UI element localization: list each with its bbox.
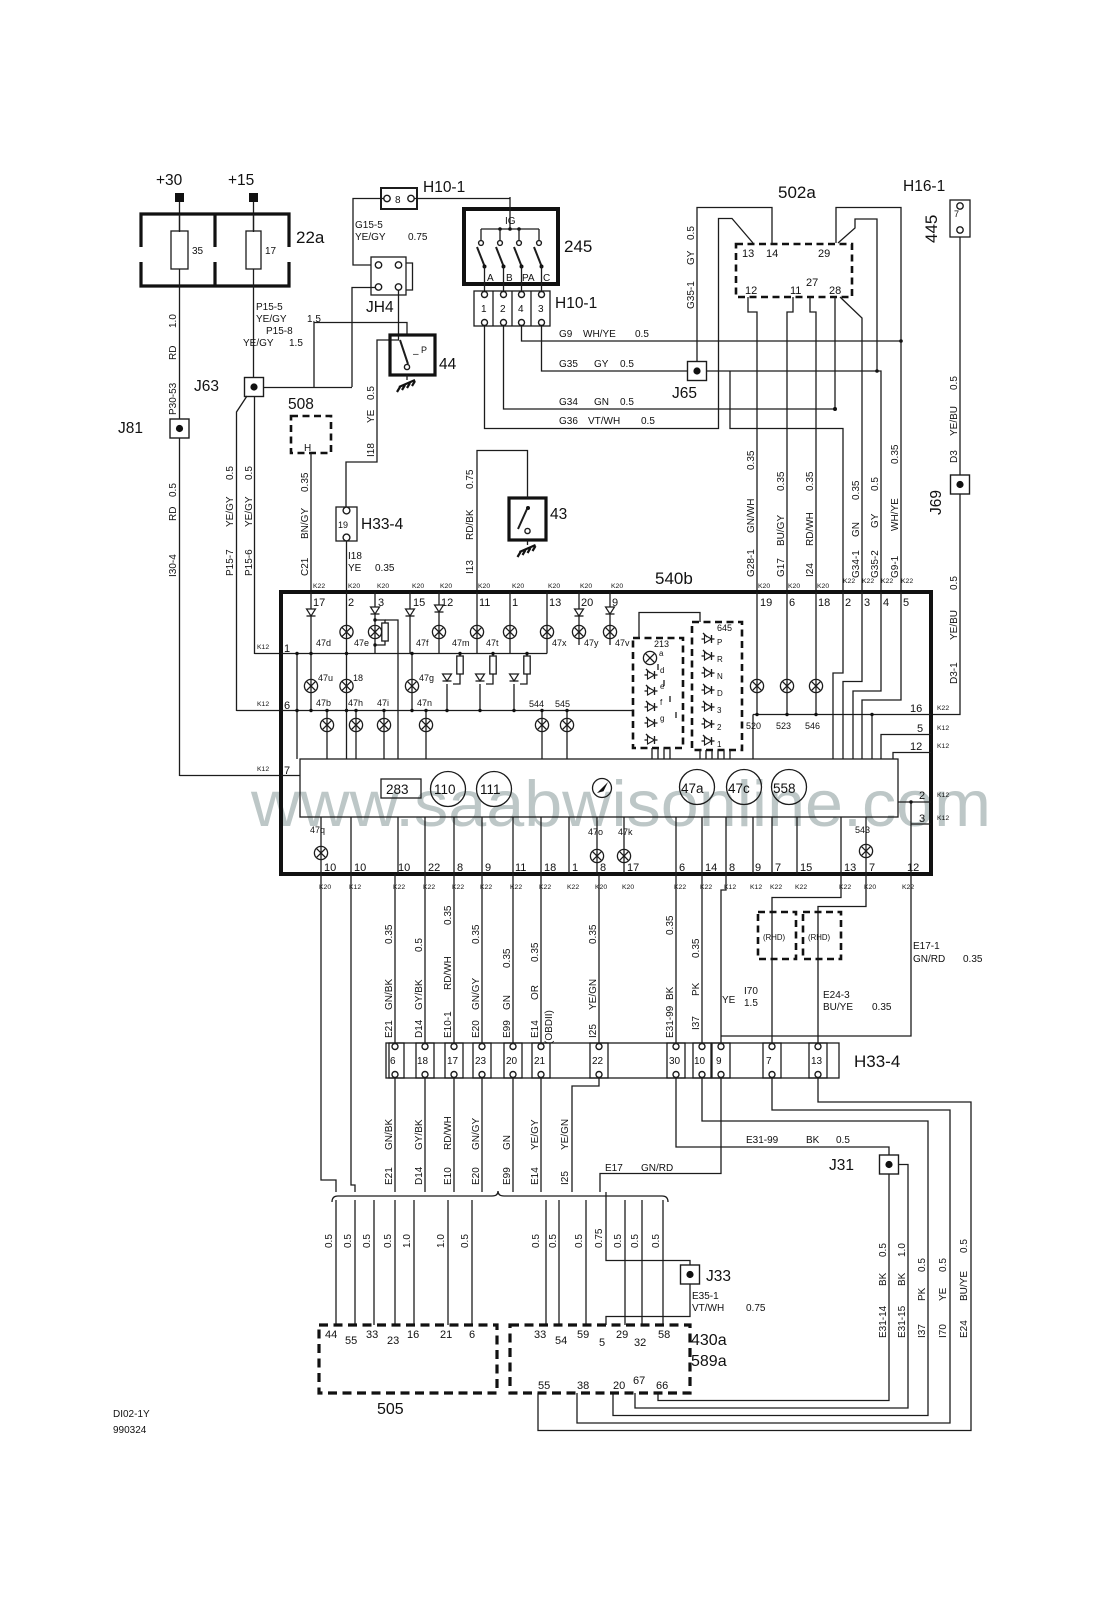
svg-text:YE/GY: YE/GY [530,1119,541,1150]
ground under 43 [518,540,536,557]
bottom pin numbers [324,862,919,874]
connector strip H33-4 [386,1043,839,1078]
svg-text:WH/YE: WH/YE [583,329,616,340]
svg-text:GN: GN [851,522,862,537]
svg-text:GN/WH: GN/WH [746,499,757,533]
svg-text:47o: 47o [588,827,603,837]
svg-text:8: 8 [395,195,401,206]
wire pin19 lamp 520 [756,592,758,715]
wire pin20 diode lamp 47y [578,592,580,645]
svg-text:445: 445 [922,215,941,243]
svg-text:505: 505 [377,1401,404,1418]
diode+resistor pair 2 [492,654,494,657]
staircase wire pin3 [843,592,862,759]
svg-text:13: 13 [844,862,856,874]
wire E31-99 BK 0.5 from H33-4 pin30 to J31 [676,1078,889,1155]
svg-text:P: P [717,638,722,647]
wire D3-1 YE/BU 0.5 from J69 down to 540b pin16 [931,494,960,715]
svg-text:645: 645 [717,623,732,633]
wire JH4 lower-left pin to J63 line [352,288,375,388]
svg-text:–: – [413,349,419,360]
svg-text:0.5: 0.5 [917,1258,928,1272]
svg-text:PK: PK [691,982,702,996]
svg-text:0.5: 0.5 [949,376,960,390]
svg-text:55: 55 [345,1335,357,1347]
svg-text:YE/GY: YE/GY [225,496,236,527]
wire pin6 lamp 523 [786,592,788,715]
svg-text:H33-4: H33-4 [854,1052,900,1071]
svg-text:10: 10 [324,862,336,874]
svg-text:RD/BK: RD/BK [465,509,476,540]
svg-text:1: 1 [572,862,578,874]
svg-text:3: 3 [717,706,722,715]
svg-text:J81: J81 [118,420,143,437]
wire 502a pin27 I24 RD/WH 0.35 to 540b pin18 [810,297,816,592]
svg-text:19: 19 [338,520,348,530]
svg-text:K12: K12 [937,743,949,750]
gauge 47c [727,770,762,805]
svg-text:G9-1: G9-1 [890,555,901,578]
svg-text:WH/YE: WH/YE [890,498,901,531]
svg-text:22a: 22a [296,228,325,247]
svg-text:7: 7 [954,209,959,219]
svg-text:G34-1: G34-1 [851,550,862,578]
svg-text:K12: K12 [937,792,949,799]
svg-text:12: 12 [907,862,919,874]
wire H10-1/8 right to ignition IG [414,198,510,200]
svg-text:C: C [543,273,550,284]
svg-text:0.35: 0.35 [746,450,757,470]
svg-text:YE: YE [722,995,736,1006]
svg-text:K22: K22 [770,884,782,891]
svg-text:(RHD): (RHD) [808,933,830,942]
wire JH4 lower-right pin YE 0.5 to H33-4 pin19 [346,290,399,507]
svg-text:E14: E14 [530,1167,541,1185]
top K labels [313,578,913,590]
svg-text:7: 7 [775,862,781,874]
lamps 544 545 [541,711,543,760]
svg-text:A: A [487,273,494,284]
svg-text:0.35: 0.35 [502,948,513,968]
right pin12 K12 wire [893,753,931,760]
RHD wire left: 13 K22 to H33-4 pin7 [772,874,841,1043]
svg-text:0.5: 0.5 [870,477,881,491]
svg-text:GN: GN [502,995,513,1010]
svg-text:0.75: 0.75 [594,1228,605,1248]
wire branch up to switch 44 [314,323,407,388]
svg-text:GN: GN [502,1135,513,1150]
svg-text:0.75: 0.75 [408,232,428,243]
wire G35 GY 0.5 from pin3 through J65 to 540b pin4 [542,326,882,592]
svg-text:0.5: 0.5 [531,1234,542,1248]
svg-text:47m: 47m [452,638,470,648]
svg-text:17: 17 [313,597,325,609]
svg-text:589a: 589a [691,1353,727,1370]
wire G15-5 YE/GY 0.75 from H10-1/8 to JH4 [353,199,384,266]
svg-text:4: 4 [518,304,524,315]
svg-text:283: 283 [386,782,409,797]
svg-text:55: 55 [538,1380,550,1392]
svg-text:BU/GY: BU/GY [776,515,787,546]
svg-text:12: 12 [910,741,922,753]
lever C [534,247,542,266]
svg-text:5: 5 [599,1337,605,1349]
svg-text:19: 19 [760,597,772,609]
svg-text:I24: I24 [805,563,816,577]
svg-text:6: 6 [390,1056,396,1067]
svg-text:GN: GN [594,397,609,408]
svg-text:0.35: 0.35 [851,480,862,500]
svg-text:29: 29 [818,248,830,260]
svg-text:13: 13 [549,597,561,609]
svg-text:K12: K12 [750,884,762,891]
svg-text:BN/GY: BN/GY [300,508,311,539]
wire 502a pin29 to G9 line [836,208,901,342]
svg-text:1: 1 [717,740,722,749]
svg-text:0.35: 0.35 [691,938,702,958]
fusebox 22a [141,214,289,286]
svg-text:47q: 47q [310,825,325,835]
wire P15-5 YE/GY from fuse17 down to J63 [253,286,255,378]
svg-text:0.5: 0.5 [414,938,425,952]
wire pin13 lamp 47x [546,592,548,654]
svg-text:BK: BK [665,986,676,1000]
rail E31-14 BK 0.5 from J31 down [658,1174,889,1401]
svg-text:0.35: 0.35 [588,924,599,944]
rail I37 PK 0.5 from H33-4 pin10 [613,1078,928,1416]
svg-text:BK: BK [806,1135,820,1146]
svg-text:RD/WH: RD/WH [443,1116,454,1150]
svg-text:6: 6 [679,862,685,874]
svg-text:13: 13 [811,1056,823,1067]
svg-text:K20: K20 [377,583,389,590]
svg-text:0.5: 0.5 [324,1234,335,1248]
diode (unlabeled) [645,734,658,744]
svg-text:YE/GY: YE/GY [244,496,255,527]
svg-text:E31-99: E31-99 [746,1135,779,1146]
svg-text:E31-99: E31-99 [665,1005,676,1038]
svg-text:P: P [421,345,427,355]
svg-text:G35-2: G35-2 [870,550,881,578]
svg-text:BU/YE: BU/YE [823,1002,853,1013]
svg-text:213: 213 [654,639,669,649]
pin16 drop to panel [871,715,873,760]
svg-text:YE/BU: YE/BU [949,406,960,436]
wire 502a pin29 slant branch to G35 line [838,219,877,371]
svg-text:H: H [304,443,311,454]
svg-text:47u: 47u [318,673,333,683]
harness brace [332,1191,668,1202]
svg-text:+15: +15 [228,172,254,189]
svg-text:K20: K20 [412,583,424,590]
svg-text:OR: OR [530,985,541,1000]
svg-text:I37: I37 [917,1324,928,1338]
svg-text:RD: RD [168,507,179,521]
svg-text:21: 21 [440,1329,452,1341]
staircase wire pin5 [862,592,901,759]
svg-text:543: 543 [855,825,870,835]
svg-text:110: 110 [434,782,456,797]
svg-text:+30: +30 [156,172,183,189]
svg-text:15: 15 [413,597,425,609]
svg-text:1.0: 1.0 [402,1234,413,1248]
svg-text:K20: K20 [478,583,490,590]
svg-text:0.5: 0.5 [630,1234,641,1248]
svg-text:K22: K22 [843,578,855,585]
svg-text:E20: E20 [471,1020,482,1038]
svg-text:BK: BK [878,1272,889,1286]
svg-text:d: d [660,666,664,675]
svg-text:P15-8: P15-8 [266,326,293,337]
svg-text:YE: YE [366,409,377,423]
staircase wire pin4 [853,592,881,759]
svg-text:16: 16 [910,703,922,715]
svg-text:0.5: 0.5 [651,1234,662,1248]
unit 502a (dashed) [736,244,852,297]
svg-text:GN/GY: GN/GY [471,977,482,1010]
wire E17 GN/RD from H33-4 pin9 to 430a pin5 [600,1078,721,1192]
svg-text:0.5: 0.5 [959,1239,970,1253]
dashed box 645 diode array [692,622,742,750]
svg-text:0.5: 0.5 [225,466,236,480]
svg-text:K22: K22 [881,578,893,585]
svg-text:K12: K12 [257,701,269,708]
row3 lamps 47b 47h 47i 47n [326,711,328,760]
svg-text:0.5: 0.5 [641,416,655,427]
svg-text:430a: 430a [691,1332,727,1349]
svg-text:9: 9 [755,862,761,874]
inner gauge panel rect [300,759,898,817]
svg-text:BK: BK [897,1272,908,1286]
gauge 558 [772,770,807,805]
svg-text:33: 33 [534,1329,546,1341]
row2 lamp 47u [310,654,312,711]
svg-text:G15-5: G15-5 [355,220,383,231]
wire 502a pin28 branch down to G34 line [834,297,836,409]
instrument cluster 540b [281,592,931,874]
svg-text:9: 9 [485,862,491,874]
harness wires down to 505 [336,1200,472,1325]
svg-text:9: 9 [716,1056,722,1067]
svg-text:28: 28 [829,285,841,297]
svg-text:545: 545 [555,699,570,709]
harness wires down to 430a [546,1200,663,1325]
svg-text:YE: YE [938,1287,949,1301]
connector H10-1 pins 1 2 4 3 [474,284,550,326]
svg-text:2: 2 [717,723,722,732]
diode 1 [702,735,715,745]
svg-text:K20: K20 [622,884,634,891]
diode+resistor pair 1 [459,654,461,657]
wire E17-1 GN/RD from pin 12 K22 [721,874,911,1036]
svg-text:0.35: 0.35 [963,954,983,965]
svg-text:54: 54 [555,1335,567,1347]
wire pin12 diode lamp 47m [438,592,440,654]
svg-text:4: 4 [883,597,889,609]
wire E35-1 VT/WH 0.75 from J33 to 430a pin5 [606,1284,690,1325]
branch from pin3 circuit down to bottom pin 10 K22 [385,620,398,759]
diode R [702,650,715,660]
svg-text:5: 5 [903,597,909,609]
svg-text:245: 245 [564,237,592,256]
svg-text:E35-1: E35-1 [692,1291,719,1302]
svg-text:508: 508 [288,396,314,413]
svg-text:47a: 47a [681,781,704,796]
svg-text:K22: K22 [567,884,579,891]
svg-text:0.35: 0.35 [872,1002,892,1013]
svg-text:E17-1: E17-1 [913,941,940,952]
svg-text:I25: I25 [560,1171,571,1185]
node J65 [688,362,707,381]
svg-text:K12: K12 [257,644,269,651]
svg-text:E24: E24 [959,1320,970,1338]
svg-text:1.0: 1.0 [168,314,179,328]
wire D3 YE/BU 0.5 from H16-1 down to J69 [959,237,961,475]
ground under 44 [397,375,415,392]
wire I18 YE 0.35 from pin19 to 540b pin2 [346,541,348,592]
row2 lamp 47g [411,654,413,711]
svg-text:1: 1 [481,304,487,315]
svg-text:J31: J31 [829,1157,854,1174]
junction vertical x297 [296,654,298,760]
svg-text:0.35: 0.35 [805,471,816,491]
svg-text:E21: E21 [384,1167,395,1185]
svg-text:K20: K20 [611,583,623,590]
svg-text:E10-1: E10-1 [443,1011,454,1038]
svg-text:P30-53: P30-53 [168,382,179,415]
svg-text:21: 21 [534,1056,546,1067]
fuse 35 [171,231,188,269]
svg-text:PK: PK [917,1287,928,1301]
svg-text:RD/WH: RD/WH [443,956,454,990]
svg-text:GY/BK: GY/BK [414,979,425,1010]
comb wires below arrays to panel [652,748,670,759]
svg-text:3: 3 [919,813,925,825]
svg-text:0.5: 0.5 [635,329,649,340]
svg-text:67: 67 [633,1375,645,1387]
svg-text:E99: E99 [502,1167,513,1185]
svg-text:47h: 47h [348,698,363,708]
svg-text:0.35: 0.35 [776,471,787,491]
svg-text:111: 111 [480,782,501,797]
svg-text:D: D [717,689,723,698]
svg-text:E31-15: E31-15 [897,1305,908,1338]
svg-text:GN/RD: GN/RD [913,954,945,965]
link wire between array feeds [639,613,700,639]
display 283 [381,779,421,798]
svg-text:47k: 47k [618,827,633,837]
svg-text:8: 8 [457,862,463,874]
svg-text:J33: J33 [706,1268,731,1285]
svg-text:D14: D14 [414,1166,425,1185]
svg-text:0.5: 0.5 [366,386,377,400]
wire C21 BN/GY 0.35 from 508 H to 540b pin17 [310,453,312,592]
svg-text:1: 1 [512,597,518,609]
svg-text:GN/BK: GN/BK [384,979,395,1010]
svg-text:33: 33 [366,1329,378,1341]
svg-text:RD/WH: RD/WH [805,512,816,546]
svg-text:H16-1: H16-1 [903,178,945,195]
svg-text:23: 23 [475,1056,487,1067]
svg-text:G35-1: G35-1 [686,281,697,309]
lamp 47o [590,849,603,862]
svg-text:G17: G17 [776,558,787,577]
wires H33-4 down with labels [395,1078,599,1192]
svg-text:RD: RD [168,346,179,360]
svg-text:43: 43 [550,506,567,523]
svg-text:23: 23 [387,1335,399,1347]
svg-text:K12: K12 [937,815,949,822]
svg-text:11: 11 [515,862,526,874]
svg-text:47y: 47y [584,638,599,648]
svg-text:K22: K22 [510,884,522,891]
diode e [645,685,658,695]
small gauge [593,779,612,798]
svg-text:0.5: 0.5 [168,483,179,497]
svg-text:10: 10 [694,1056,706,1067]
rail E31-15 BK 1.0 from J31 right [635,1165,908,1409]
svg-text:47i: 47i [377,698,389,708]
svg-text:59: 59 [577,1329,589,1341]
svg-text:YE/BU: YE/BU [949,610,960,640]
dashed box 213 diode array [633,638,683,748]
unit 430a / 589a (dashed) [510,1325,690,1393]
svg-text:0.5: 0.5 [383,1234,394,1248]
svg-text:E20: E20 [471,1167,482,1185]
node J33 [681,1265,700,1284]
svg-text:47f: 47f [416,638,429,648]
wire G9 WH/YE 0.5 from pin4 to 540b pin5 [522,326,902,592]
wire +15 feed [253,202,255,232]
svg-text:8: 8 [600,862,606,874]
svg-text:1.0: 1.0 [897,1243,908,1257]
svg-text:K20: K20 [788,583,800,590]
svg-text:0.75: 0.75 [746,1303,766,1314]
svg-text:K20: K20 [440,583,452,590]
svg-text:I13: I13 [465,560,476,574]
svg-text:47n: 47n [417,698,432,708]
svg-text:18: 18 [353,673,363,683]
svg-text:20: 20 [613,1380,625,1392]
wire P15-6 YE/GY 0.5 from J63 to 540b pin1 line [254,396,256,654]
unit 505 (dashed) [319,1325,497,1393]
svg-text:18: 18 [544,862,556,874]
svg-text:10: 10 [354,862,366,874]
svg-text:YE/GN: YE/GN [588,979,599,1010]
svg-text:0.5: 0.5 [343,1234,354,1248]
svg-text:K12: K12 [937,725,949,732]
svg-text:523: 523 [776,721,791,731]
svg-text:0.35: 0.35 [384,924,395,944]
svg-text:0.5: 0.5 [878,1243,889,1257]
svg-text:47b: 47b [316,698,331,708]
top pin numbers [313,597,909,609]
svg-text:0.5: 0.5 [620,397,634,408]
svg-text:J63: J63 [194,378,219,395]
lamp 47q [314,846,327,859]
svg-text:K22: K22 [902,884,914,891]
svg-text:JH4: JH4 [366,299,394,316]
svg-text:K20: K20 [548,583,560,590]
svg-text:DI02-1Y: DI02-1Y [113,1409,150,1420]
svg-text:16: 16 [407,1329,419,1341]
svg-text:K20: K20 [512,583,524,590]
svg-text:44: 44 [325,1329,337,1341]
svg-text:17: 17 [447,1056,459,1067]
svg-text:47d: 47d [316,638,331,648]
svg-text:5: 5 [917,723,923,735]
svg-text:47t: 47t [486,638,499,648]
